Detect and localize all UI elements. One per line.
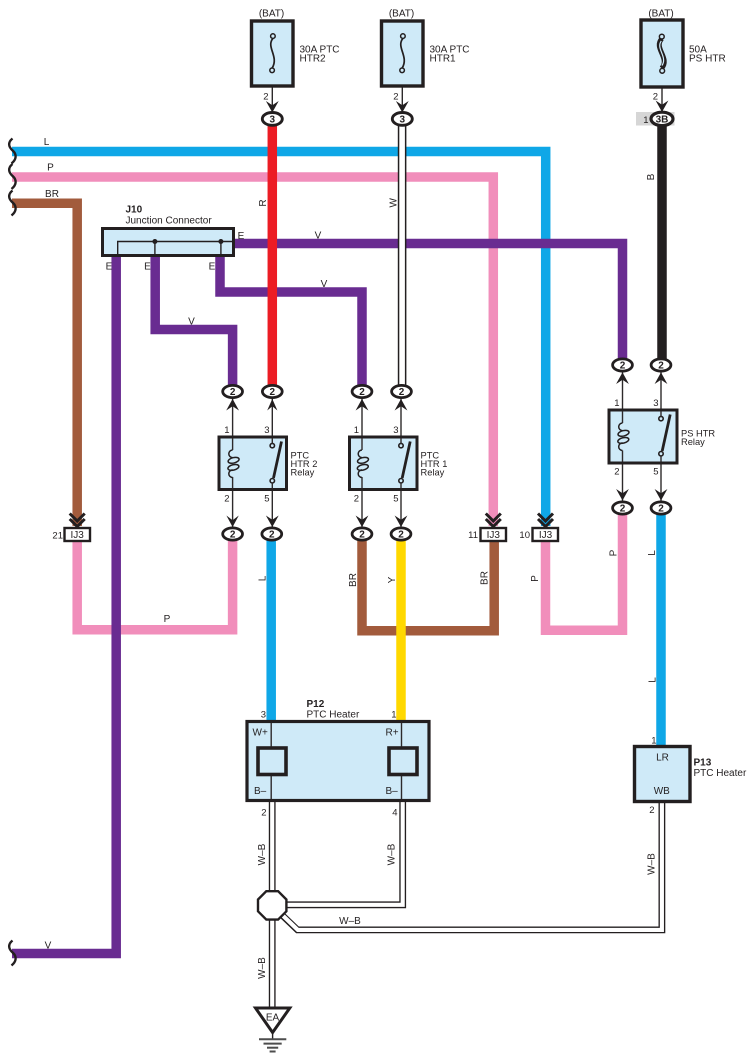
svg-text:P: P bbox=[164, 614, 171, 625]
pin line fuse HTR2 to oval 3 bbox=[271, 86, 273, 112]
svg-text:V: V bbox=[45, 941, 52, 952]
connector break squiggle at left end of wire P bbox=[9, 164, 15, 189]
relay PTC HTR2: up arrow pin 3 bbox=[267, 399, 277, 411]
connector break squiggle at left end of wire L bbox=[9, 139, 15, 164]
connector break squiggle at left end of bottom wire V bbox=[9, 941, 15, 966]
svg-text:4: 4 bbox=[392, 808, 397, 819]
svg-text:2: 2 bbox=[399, 387, 405, 398]
wire W-B from P12 pin 4 to ground octagon junction bbox=[283, 800, 403, 905]
svg-text:P13: P13 bbox=[694, 758, 712, 769]
wire BR brown from relay PTC HTR1 pin 2 to IJ3 11 bbox=[362, 534, 494, 631]
svg-text:3: 3 bbox=[261, 709, 266, 720]
svg-text:W+: W+ bbox=[253, 728, 268, 739]
svg-text:1: 1 bbox=[651, 735, 656, 746]
svg-text:2: 2 bbox=[270, 387, 276, 398]
relay PTC HTR2 switch bbox=[274, 442, 282, 479]
svg-text:L: L bbox=[647, 550, 658, 556]
relay PTC HTR1: oval 2 below pin 5 bbox=[391, 528, 411, 540]
svg-text:EA: EA bbox=[266, 1013, 280, 1024]
wire R red from fuse 30A PTC HTR2 to relay PTC HTR2 pin 3 bbox=[268, 120, 278, 392]
svg-text:2: 2 bbox=[653, 92, 658, 103]
relay PTC HTR2 coil bbox=[227, 450, 239, 478]
wire P pink from IJ3 10 to PS HTR relay pin 2 bbox=[546, 508, 623, 630]
pin lines relay PTC HTR1 bbox=[361, 396, 363, 450]
svg-text:B–: B– bbox=[386, 786, 399, 797]
svg-text:PTC Heater: PTC Heater bbox=[307, 710, 360, 721]
J10 internal bus bbox=[118, 242, 234, 255]
svg-text:5: 5 bbox=[393, 494, 398, 505]
svg-text:1: 1 bbox=[224, 425, 229, 436]
wire V purple long from J10 stub 1 to bottom-left connector break bbox=[12, 253, 116, 954]
wire W-B from P13 pin 2 to ground octagon junction bbox=[280, 800, 662, 930]
relay PTC HTR2: down arrow pin 5 bbox=[266, 516, 279, 528]
svg-text:V: V bbox=[188, 317, 195, 328]
chevron arrows into IJ3 10 bbox=[538, 514, 553, 527]
svg-text:2: 2 bbox=[658, 504, 664, 515]
svg-text:B–: B– bbox=[254, 786, 267, 797]
relay PTC HTR1 box bbox=[350, 437, 418, 490]
chevron arrows into IJ3 21 bbox=[70, 514, 85, 527]
svg-text:2: 2 bbox=[359, 387, 365, 398]
ground octagon junction bbox=[258, 891, 286, 919]
white centers of W-B ground wires bbox=[270, 799, 274, 892]
svg-text:IJ3: IJ3 bbox=[539, 530, 553, 541]
PS HTR relay coil bbox=[617, 423, 629, 451]
svg-text:3: 3 bbox=[393, 425, 398, 436]
fuse 30A PTC HTR1 symbol bbox=[401, 38, 405, 68]
svg-text:P12: P12 bbox=[307, 699, 325, 710]
svg-text:W–B: W–B bbox=[387, 843, 398, 865]
svg-text:21: 21 bbox=[52, 531, 63, 542]
svg-text:Junction Connector: Junction Connector bbox=[126, 216, 213, 227]
svg-text:(BAT): (BAT) bbox=[389, 9, 414, 20]
P13 PTC Heater box bbox=[635, 747, 691, 802]
svg-text:W–B: W–B bbox=[257, 957, 268, 979]
connector break squiggle at left end of wire BR bbox=[9, 191, 15, 216]
svg-text:(BAT): (BAT) bbox=[259, 9, 284, 20]
wire L blue horizontal from connector break to IJ3 10 bbox=[12, 152, 546, 527]
svg-text:E: E bbox=[106, 262, 113, 273]
pin lines relay PTC HTR2 bbox=[232, 396, 234, 450]
relay PTC HTR1: down arrow pin 2 bbox=[356, 516, 369, 528]
svg-text:W–B: W–B bbox=[339, 916, 361, 927]
svg-text:3B: 3B bbox=[656, 115, 669, 126]
svg-text:11: 11 bbox=[468, 530, 478, 541]
thin pin lines bbox=[233, 86, 662, 801]
fuse 30A PTC HTR2 box bbox=[252, 21, 294, 86]
internal pin line segments inside boxes bbox=[233, 411, 661, 799]
IJ3 21 box bbox=[65, 528, 91, 541]
PS HTR relay: oval 2 above pin 3 bbox=[651, 359, 671, 371]
svg-text:P: P bbox=[609, 549, 620, 556]
wire V purple from J10 stub 3 to relay PTC HTR1 pin 1 bbox=[220, 253, 362, 392]
svg-text:E: E bbox=[238, 231, 245, 242]
svg-text:2: 2 bbox=[263, 92, 268, 103]
relay PTC HTR1 coil bbox=[357, 450, 369, 478]
svg-text:J10: J10 bbox=[126, 205, 143, 216]
P12 heater element square right bbox=[389, 748, 417, 775]
svg-text:PTC Heater: PTC Heater bbox=[694, 768, 747, 779]
fuse 30A PTC HTR1 box bbox=[382, 21, 424, 86]
internal lines P12 heater elements bbox=[270, 722, 272, 748]
wire P pink from relay PTC HTR2 pin 2 to IJ3 21 bbox=[77, 534, 232, 630]
relay PTC HTR2: oval 2 above pin 3 bbox=[262, 385, 282, 397]
svg-text:R+: R+ bbox=[386, 728, 399, 739]
wire W-B from octagon junction down to EA ground bbox=[269, 918, 276, 1009]
svg-text:HTR1: HTR1 bbox=[430, 54, 457, 65]
svg-text:2: 2 bbox=[354, 494, 359, 505]
wire W-B from P12 pin 2 to ground octagon junction bbox=[269, 800, 276, 892]
svg-text:L: L bbox=[648, 677, 659, 683]
relay PTC HTR2: oval 2 below pin 5 bbox=[262, 528, 282, 540]
P12 heater element square left bbox=[258, 748, 286, 775]
fuse 30A PTC HTR2 symbol bbox=[271, 38, 275, 68]
svg-text:2: 2 bbox=[230, 387, 236, 398]
wire L blue from PS HTR relay pin 5 to P13 pin 1 bbox=[656, 508, 666, 748]
relay PTC HTR1: up arrow pin 3 bbox=[395, 399, 408, 411]
wire P pink horizontal from connector break to IJ3 11 bbox=[12, 177, 493, 526]
svg-text:L: L bbox=[258, 575, 269, 581]
svg-text:IJ3: IJ3 bbox=[71, 530, 85, 541]
svg-text:10: 10 bbox=[519, 530, 530, 541]
svg-text:5: 5 bbox=[264, 494, 269, 505]
fuse 50A PS HTR symbol (high amp) bbox=[659, 39, 664, 68]
svg-text:E: E bbox=[209, 262, 216, 273]
svg-text:2: 2 bbox=[614, 467, 619, 478]
P12 PTC Heater box bbox=[247, 722, 429, 801]
wire V purple from J10 right exit E to PS HTR relay pin 1 bbox=[232, 244, 623, 366]
fuse HTR2 oval 3 bbox=[262, 113, 282, 126]
svg-text:2: 2 bbox=[620, 361, 626, 372]
PS HTR relay switch bbox=[662, 415, 670, 452]
svg-text:5: 5 bbox=[653, 467, 658, 478]
svg-text:R: R bbox=[258, 199, 269, 206]
svg-text:2: 2 bbox=[658, 361, 664, 372]
relay PTC HTR1: up arrow pin 1 bbox=[356, 399, 369, 411]
svg-text:W–B: W–B bbox=[257, 843, 268, 865]
svg-text:3: 3 bbox=[400, 115, 406, 126]
fuse 50A PS HTR box bbox=[641, 20, 683, 87]
svg-text:2: 2 bbox=[261, 808, 266, 819]
svg-text:HTR2: HTR2 bbox=[300, 54, 327, 65]
PS HTR relay: up arrow pin 3 bbox=[655, 372, 668, 384]
junction connector J10 box bbox=[103, 229, 234, 256]
svg-text:3: 3 bbox=[653, 398, 658, 409]
PS HTR relay: oval 2 below pin 5 bbox=[651, 502, 671, 514]
fuse HTR1 oval 3 bbox=[392, 113, 412, 126]
svg-text:1: 1 bbox=[614, 398, 619, 409]
svg-text:W–B: W–B bbox=[647, 853, 658, 875]
chevron arrows into IJ3 11 bbox=[486, 514, 501, 527]
relay PTC HTR2: up arrow pin 1 bbox=[226, 399, 239, 411]
IJ3 11 box bbox=[481, 528, 507, 541]
wire Y yellow from relay PTC HTR1 pin 5 to P12 pin 1 bbox=[396, 534, 406, 722]
IJ3 10 box bbox=[533, 528, 559, 541]
gray highlight behind 1 3B bbox=[636, 112, 675, 126]
pin lines PS HTR relay bbox=[622, 370, 624, 423]
svg-text:V: V bbox=[321, 279, 328, 290]
fuse PS HTR oval 3B bbox=[651, 112, 673, 125]
PS HTR relay: up arrow pin 1 bbox=[616, 372, 629, 384]
svg-text:2: 2 bbox=[230, 530, 236, 541]
ground EA triangle bbox=[256, 1008, 290, 1033]
svg-text:3: 3 bbox=[264, 425, 269, 436]
fuse PS HTR arrow into oval 3B bbox=[656, 101, 669, 113]
J10 junction dot bbox=[152, 239, 157, 244]
svg-text:2: 2 bbox=[359, 530, 365, 541]
svg-text:E: E bbox=[144, 262, 151, 273]
pin line fuse PS HTR to oval 3B bbox=[661, 87, 663, 112]
svg-text:V: V bbox=[315, 231, 322, 242]
relay PTC HTR2: down arrow pin 2 bbox=[226, 516, 238, 528]
svg-text:Relay: Relay bbox=[681, 437, 705, 447]
svg-text:2: 2 bbox=[398, 530, 404, 541]
relay PTC HTR1: oval 2 above pin 3 bbox=[392, 385, 412, 397]
svg-text:3: 3 bbox=[270, 115, 276, 126]
wire BR brown from connector break down to IJ3 21 bbox=[12, 203, 77, 526]
svg-text:(BAT): (BAT) bbox=[648, 9, 673, 20]
wire B black from fuse 50A PS HTR to PS HTR relay pin 3 bbox=[657, 120, 667, 365]
ground stem and hatch bbox=[272, 1033, 274, 1040]
relay PTC HTR1: oval 2 above pin 1 bbox=[352, 385, 372, 397]
wire W white (black outline) from fuse 30A PTC HTR1 to relay PTC HTR1 pin 3 bbox=[398, 122, 407, 390]
svg-text:2: 2 bbox=[649, 805, 654, 816]
svg-text:2: 2 bbox=[269, 530, 275, 541]
relay PTC HTR2 box bbox=[219, 437, 287, 490]
svg-text:1: 1 bbox=[391, 709, 396, 720]
svg-text:BR: BR bbox=[480, 571, 491, 585]
svg-text:PS HTR: PS HTR bbox=[689, 54, 726, 65]
svg-text:2: 2 bbox=[224, 494, 229, 505]
relay PTC HTR1 switch bbox=[402, 442, 410, 479]
svg-text:Relay: Relay bbox=[291, 468, 315, 478]
fuse HTR1 arrow into oval 3 bbox=[396, 101, 409, 113]
svg-text:IJ3: IJ3 bbox=[487, 530, 501, 541]
relay PTC HTR1: oval 2 below pin 2 bbox=[352, 528, 372, 540]
svg-text:B: B bbox=[646, 173, 657, 180]
PS HTR relay: down arrow pin 2 bbox=[616, 489, 629, 501]
svg-text:1: 1 bbox=[643, 115, 648, 126]
svg-text:LR: LR bbox=[656, 753, 669, 764]
relay PTC HTR2: oval 2 above pin 1 bbox=[223, 385, 243, 397]
J10 junction dot bbox=[218, 239, 223, 244]
svg-text:Y: Y bbox=[387, 576, 398, 583]
relay PTC HTR1: down arrow pin 5 bbox=[395, 516, 408, 528]
wire L blue from relay PTC HTR2 pin 5 to P12 pin 3 bbox=[266, 534, 276, 722]
svg-text:BR: BR bbox=[348, 573, 359, 587]
svg-text:Relay: Relay bbox=[421, 468, 445, 478]
svg-text:P: P bbox=[530, 575, 541, 582]
svg-text:BR: BR bbox=[45, 189, 59, 200]
PS HTR relay: oval 2 below pin 2 bbox=[613, 502, 633, 514]
wire V purple from J10 stub 2 to relay PTC HTR2 pin 1 bbox=[155, 253, 232, 392]
svg-text:P: P bbox=[47, 163, 54, 174]
PS HTR relay box bbox=[609, 410, 677, 463]
svg-text:2: 2 bbox=[620, 504, 626, 515]
svg-text:L: L bbox=[44, 137, 50, 148]
relay PTC HTR2: oval 2 below pin 2 bbox=[223, 528, 243, 540]
pin line fuse HTR1 to oval 3 bbox=[401, 86, 403, 112]
svg-text:2: 2 bbox=[393, 92, 398, 103]
PS HTR relay: down arrow pin 5 bbox=[655, 489, 668, 501]
svg-text:WB: WB bbox=[654, 786, 670, 797]
fuse HTR2 arrow into oval 3 bbox=[266, 101, 279, 113]
svg-text:W: W bbox=[389, 198, 400, 208]
svg-text:1: 1 bbox=[354, 425, 359, 436]
PS HTR relay: oval 2 above pin 1 bbox=[613, 359, 633, 371]
